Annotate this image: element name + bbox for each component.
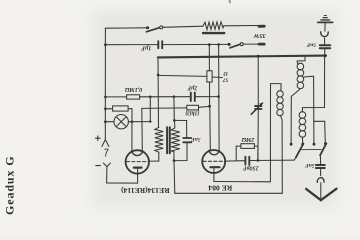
wire L2 tap	[304, 76, 314, 144]
wire mains second line right	[163, 43, 229, 45]
capacitor 5nF (AF) plates	[183, 137, 191, 139]
wire grid line to switch	[250, 159, 294, 161]
capacitor 2uF plates	[190, 93, 192, 101]
wire lamp line left	[105, 121, 114, 123]
node sec bottom jog	[173, 159, 176, 162]
switch S2 blade	[230, 44, 240, 48]
coil L2 turns	[297, 63, 304, 70]
squiggle 7	[105, 149, 108, 156]
wire tap2 down to RE084 right filament	[218, 45, 221, 151]
node 1k / 57ohm / filament junction	[208, 105, 211, 108]
node dropper tap 1	[208, 43, 211, 46]
node switch contact 3	[313, 143, 316, 146]
resistor 0.1M box	[127, 95, 140, 99]
wire RE084 grid to leak	[225, 160, 244, 162]
wire grid bias line mid	[140, 96, 190, 98]
wire L2 bottom elbow	[291, 90, 299, 145]
wire grid cap bottom jog	[174, 143, 187, 161]
wire tap branch to antenna contact	[314, 121, 326, 143]
wire 2M right leg	[254, 146, 258, 160]
tube RE134 anode bar	[134, 167, 142, 169]
transformer core bar 1	[166, 127, 168, 153]
wire 2M left leg	[236, 146, 241, 161]
wire tap1 through 57ohm down to junction	[208, 45, 210, 71]
wire anode line to coil	[214, 181, 271, 183]
svg-text:RE 084: RE 084	[208, 184, 232, 193]
capacitor 5nF earth plates	[316, 164, 325, 166]
tube RE134 grid dashes	[126, 161, 148, 163]
transformer core bar 2	[169, 127, 171, 153]
earth chevron	[306, 189, 336, 201]
tube RE134 filament dome	[132, 151, 143, 156]
wire lamp line right	[128, 121, 150, 123]
capacitor 5nF antenna plates	[320, 44, 330, 46]
wire RE134 left filament lead	[131, 109, 133, 151]
wire antenna drop from bus	[302, 56, 324, 112]
capacitor C1 1uF plates	[157, 41, 159, 48]
tube RE084 anode bar	[211, 166, 220, 168]
wire bus drop to transformer	[157, 57, 160, 127]
svg-text:2MΩ: 2MΩ	[241, 136, 255, 142]
tube RE084 grid dashes	[203, 160, 225, 162]
wire primary bottom to anode	[149, 152, 159, 161]
wire bottom return	[175, 192, 282, 194]
node switch contact 2	[301, 143, 304, 146]
switch coupling bar	[302, 148, 322, 150]
switch S1 hinge circle	[160, 26, 163, 29]
wire ground lead	[324, 23, 326, 31]
wire 1k line left	[142, 107, 187, 110]
svg-text:(1kΩ): (1kΩ)	[185, 110, 199, 117]
svg-text:250pF: 250pF	[243, 165, 260, 171]
ground symbol top	[318, 21, 333, 23]
wire cap to bus end	[324, 49, 326, 56]
lamp dial light circle	[114, 115, 128, 129]
svg-text:Geadux G: Geadux G	[3, 155, 17, 215]
node rail-B+ top	[104, 43, 107, 46]
wire secondary bottom long	[173, 152, 176, 194]
transformer secondary zigzag	[171, 128, 180, 152]
capacitor 250pF plates	[244, 157, 246, 165]
coil L1 former left side	[269, 84, 271, 182]
svg-text:1μF: 1μF	[141, 45, 151, 51]
wire secondary top to bias node	[173, 97, 175, 121]
node rail-grid	[104, 96, 107, 99]
wire to mains pin 2	[243, 43, 258, 45]
node switch contact 4	[324, 142, 327, 145]
wire tuning cap line bottom	[257, 110, 259, 161]
wire grid bias line left	[105, 96, 126, 98]
terminal minus fork	[103, 163, 110, 167]
wire left rail	[104, 28, 106, 139]
coil L1 turns	[277, 91, 283, 97]
node lamp / filament	[131, 120, 134, 123]
node switch contact 1	[290, 143, 293, 146]
svg-text:RE134(RE114): RE134(RE114)	[121, 186, 170, 195]
wire filament res line	[105, 108, 132, 110]
tube RE134 envelope	[126, 150, 149, 173]
node lamp drop	[149, 96, 152, 99]
node lamp right	[149, 120, 151, 122]
wire main bus	[158, 56, 326, 58]
lamp X stroke 1	[116, 117, 126, 127]
switch wave blade 2	[320, 143, 326, 155]
svg-text:5nF: 5nF	[191, 136, 201, 142]
variable capacitor plates	[255, 105, 261, 107]
variable capacitor arrow	[251, 103, 262, 114]
resistor 1k box	[187, 105, 199, 110]
wire secondary top lead	[174, 120, 176, 128]
wire RE134 right filament lead	[141, 108, 144, 150]
terminal plus sign	[96, 136, 101, 141]
wire grid cap feed	[174, 120, 186, 137]
terminal plus fork	[102, 140, 109, 147]
coil L3 turns	[299, 112, 306, 119]
wire 1k line right	[199, 105, 210, 108]
node bus drop / 57ohm feed	[157, 74, 160, 77]
wire to mains pin 1	[224, 25, 259, 27]
node dropper tap 2	[217, 43, 220, 46]
tube RE084 filament dome	[209, 150, 219, 154]
node tuning cap bottom	[257, 159, 260, 162]
node transformer sec top feed	[173, 95, 176, 98]
node bus end	[324, 54, 327, 57]
connector hook bottom	[317, 178, 324, 183]
wire minus stem	[107, 167, 138, 184]
switch S1 blade	[146, 28, 160, 32]
coil L1 top bar	[271, 84, 282, 91]
resistor 2M box	[241, 144, 255, 149]
wire to dropper	[163, 26, 203, 27]
svg-text:5nF: 5nF	[306, 41, 316, 47]
wire tuning cap line top	[257, 56, 259, 105]
wire RE084 left filament lead	[209, 106, 212, 150]
wire grid bias line right	[196, 96, 219, 98]
wire hook to cap	[324, 38, 326, 44]
lamp X stroke 2	[116, 117, 126, 127]
wire RE134 anode lead	[137, 169, 139, 184]
node rail-lamp	[104, 120, 107, 123]
switch wave blade 1	[296, 144, 304, 158]
wire to 57ohm	[158, 75, 207, 76]
resistor R 57ohm box	[207, 71, 212, 82]
node secondary top	[173, 119, 176, 122]
node rail-res	[104, 108, 107, 111]
terminal mains pin 2	[259, 43, 264, 46]
wire blade1 jog	[294, 157, 296, 160]
resistor lamp shunt box	[113, 106, 129, 111]
svg-text:35W: 35W	[252, 32, 266, 39]
resistor dropper slider bar	[203, 32, 224, 34]
svg-text:5nF: 5nF	[305, 162, 315, 168]
coil L2 bus stub	[297, 56, 305, 61]
resistor dropper zigzag	[203, 22, 224, 30]
coil L1 right side down	[281, 116, 283, 194]
transformer primary zigzag	[155, 127, 163, 152]
wire cap to plug	[320, 169, 322, 176]
switch S1 contact dot	[146, 26, 149, 29]
svg-text:57: 57	[223, 77, 229, 83]
terminal minus sign	[96, 165, 101, 167]
smudge top edge	[229, 0, 232, 3]
wire grid return drop	[149, 97, 151, 122]
switch S2 hinge circle	[240, 43, 243, 46]
terminal mains pin 1	[259, 25, 264, 28]
coil L2 top curl	[297, 61, 298, 64]
svg-text:2μF: 2μF	[187, 84, 198, 90]
wire mains top line	[105, 27, 147, 29]
wire 57ohm right stub	[212, 76, 222, 79]
wire mains second line left	[105, 44, 157, 46]
connector hook top	[321, 32, 329, 37]
node bus / tuning cap	[257, 55, 260, 58]
tube RE084 envelope	[202, 150, 225, 173]
svg-text:0,1MΩ: 0,1MΩ	[124, 86, 142, 92]
node grid line / tap2	[217, 95, 220, 98]
wire blade2 down	[319, 155, 321, 164]
wire plug to earth	[320, 183, 322, 200]
wire L3 bottom	[302, 137, 304, 144]
wire RE084 anode lead	[213, 168, 215, 181]
switch S2 contact dot	[228, 43, 231, 46]
